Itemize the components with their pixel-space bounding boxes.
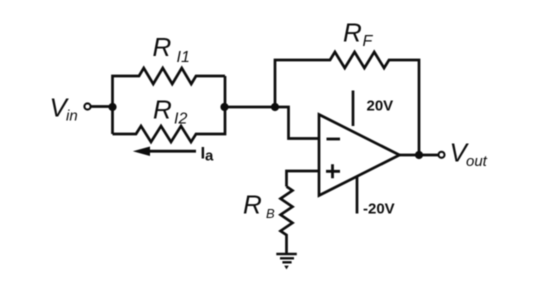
wire Vin to node A [91, 105, 113, 108]
current arrow Ia [146, 150, 196, 153]
svg-text:F: F [363, 33, 374, 50]
node B junction dot [220, 103, 228, 111]
ground [276, 254, 297, 262]
wire node B to node C [225, 106, 276, 109]
svg-text:I2: I2 [174, 111, 187, 128]
positive supply wire 20V [352, 91, 355, 127]
svg-text:in: in [66, 108, 78, 125]
negative supply wire -20V [356, 177, 359, 214]
svg-text:out: out [466, 153, 488, 170]
node A junction dot [108, 103, 116, 111]
svg-text:R: R [153, 95, 172, 125]
op-amp U1 [319, 115, 400, 196]
terminal Vout [439, 152, 445, 158]
resistor RI1 top branch [113, 68, 226, 134]
resistor RB [281, 187, 293, 255]
arrowhead of Ia [133, 147, 150, 157]
terminal Vin [84, 103, 90, 109]
svg-text:B: B [266, 206, 275, 221]
svg-text:a: a [205, 148, 214, 165]
svg-text:R: R [343, 18, 362, 48]
output node junction dot [415, 151, 423, 159]
node C junction dot [271, 103, 279, 111]
op-amp plus pin symbol [326, 164, 340, 178]
output wire [400, 154, 439, 157]
ground apex triangle [284, 266, 289, 270]
op-amp minus pin symbol [327, 138, 341, 141]
svg-text:R: R [243, 190, 262, 220]
svg-text:R: R [153, 32, 172, 62]
svg-text:I1: I1 [177, 49, 190, 66]
wire noninverting input to RB [287, 171, 320, 187]
svg-text:20V: 20V [367, 98, 394, 115]
resistor RI2 bottom branch [113, 76, 226, 142]
svg-text:-20V: -20V [363, 201, 395, 218]
wire / resistor RF feedback loop [275, 52, 419, 155]
wire node C to inverting input [275, 107, 319, 139]
